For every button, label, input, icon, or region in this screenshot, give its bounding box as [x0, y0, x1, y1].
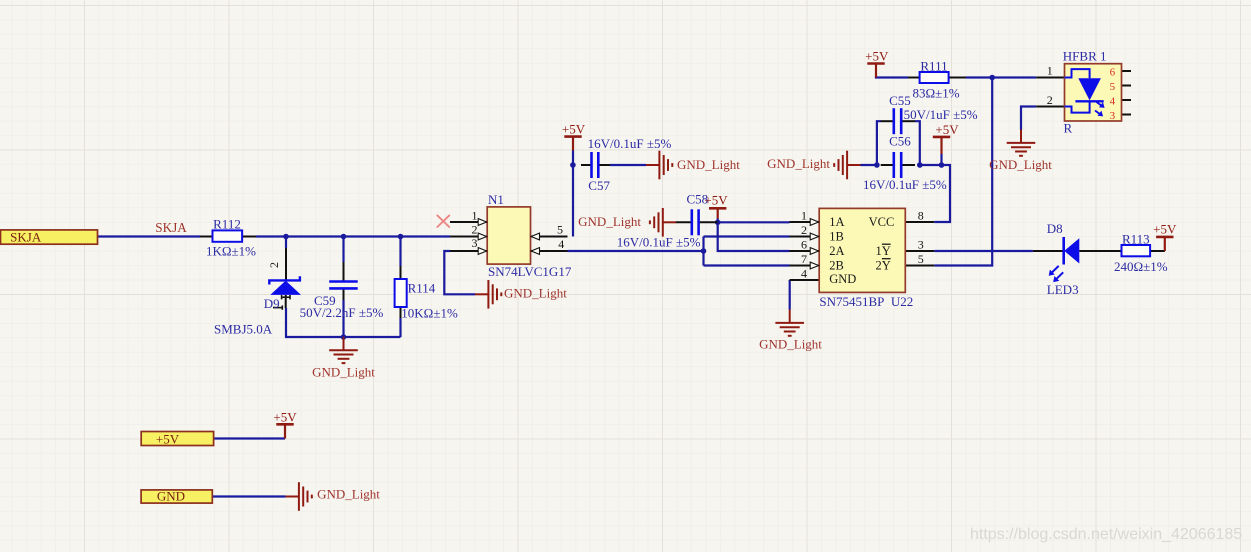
wire C56 to U22 pin8 VCC	[920, 165, 950, 222]
junction F	[715, 220, 721, 226]
ground GND_Light at GND port	[286, 482, 312, 511]
no-ERC marker at N1 pin1	[437, 215, 450, 228]
HFBR internal LED triangle	[1078, 78, 1101, 100]
overbar 1Y	[882, 243, 891, 245]
pin D9.1	[285, 295, 287, 308]
svg-text:GND_Light: GND_Light	[317, 487, 380, 502]
svg-text:1: 1	[1047, 64, 1053, 78]
pin N1.2	[450, 236, 487, 238]
junction G	[701, 248, 707, 254]
wire R111 to HFBR pin1	[966, 76, 1036, 78]
wire to R114	[399, 237, 401, 267]
svg-text:2: 2	[801, 223, 807, 237]
svg-text:R113: R113	[1122, 231, 1150, 246]
wire R114 to rail	[399, 318, 401, 337]
svg-text:6: 6	[801, 237, 807, 251]
resistor R114	[395, 279, 407, 307]
capacitor C55	[894, 108, 901, 134]
svg-text:GND_Light: GND_Light	[767, 156, 830, 171]
svg-text:4: 4	[1110, 95, 1116, 107]
power +5V at R111	[867, 64, 884, 78]
port SKJA	[1, 230, 98, 244]
svg-text:+5V: +5V	[935, 122, 959, 137]
wire ground to C56	[861, 164, 877, 166]
capacitor C58	[692, 209, 699, 235]
svg-text:HFBR 1: HFBR 1	[1063, 49, 1107, 64]
pin U22.1	[790, 221, 820, 223]
wire C55 right rail	[915, 121, 920, 165]
pin arrow U22.7	[810, 262, 818, 269]
pin C57.2	[598, 164, 610, 166]
pin HFBR.3	[1122, 114, 1132, 116]
svg-text:1Y: 1Y	[876, 244, 891, 258]
svg-text:6: 6	[1110, 66, 1116, 78]
svg-text:1B: 1B	[829, 229, 844, 243]
junction A	[283, 234, 289, 240]
ground GND_Light at N1 pin3	[475, 280, 501, 309]
svg-text:+5V: +5V	[704, 193, 728, 208]
svg-text:4: 4	[558, 237, 564, 251]
resistor R112	[213, 230, 243, 241]
power +5V at +5V port	[276, 424, 293, 438]
pin arrow N1.2	[478, 233, 486, 240]
svg-text:2: 2	[472, 222, 478, 236]
wire +5V to N1 pin5, C57 tap	[572, 151, 574, 237]
svg-text:2: 2	[267, 262, 281, 268]
op-amp U22 SN75451BP body	[819, 208, 905, 292]
junction H	[874, 162, 880, 168]
svg-text:GND_Light: GND_Light	[504, 286, 567, 301]
wire node vertical	[702, 237, 704, 266]
ground GND_Light at C55/C56 (mirrored)	[834, 151, 860, 180]
pin C58.1	[676, 221, 692, 223]
pin C56.1	[881, 164, 894, 166]
wire HFBR pin2 to ground	[1021, 107, 1036, 131]
svg-text:VCC: VCC	[869, 215, 895, 229]
LED D8 emission arrows	[1049, 266, 1064, 282]
pin U22.5	[905, 265, 934, 267]
wire left rail to C55	[877, 121, 881, 165]
svg-text:2B: 2B	[829, 258, 844, 272]
pin C55.1	[881, 120, 894, 122]
wire +5V to R111	[876, 76, 908, 78]
svg-text:GND: GND	[829, 272, 856, 286]
svg-text:R114: R114	[408, 281, 436, 296]
overbar 2Y	[882, 258, 891, 260]
HFBR emission arrows	[1095, 102, 1105, 116]
wire U22 pin4 to ground	[789, 280, 791, 310]
svg-text:3: 3	[918, 237, 924, 251]
pin U22.2	[790, 236, 820, 238]
svg-text:C57: C57	[588, 178, 610, 193]
pin U22.8	[905, 221, 934, 223]
svg-text:SKJA: SKJA	[10, 230, 42, 245]
pin D8.2	[1033, 250, 1064, 252]
junction I	[917, 162, 923, 168]
HFBR internal LED wiring	[1065, 69, 1104, 113]
pin C59.1	[343, 262, 345, 281]
power +5V at C55/C56	[933, 137, 950, 154]
wire to U22 pin7	[704, 264, 790, 266]
svg-text:GND_Light: GND_Light	[578, 214, 641, 229]
module HFBR 1 body	[1065, 64, 1122, 121]
wire node to U22 pin5 2Y	[934, 78, 992, 266]
wire D9 to bottom rail	[286, 308, 401, 337]
pin HFBR.1	[1036, 77, 1064, 79]
svg-text:16V/0.1uF ±5%: 16V/0.1uF ±5%	[863, 177, 947, 192]
junction E	[570, 162, 576, 168]
wire U22 pin3 1Y to D8	[934, 250, 1033, 252]
wire +5V stem tail C58	[717, 219, 719, 223]
svg-text:GND_Light: GND_Light	[989, 157, 1052, 172]
pin HFBR.4	[1122, 99, 1132, 101]
junction J	[939, 162, 945, 168]
LED D8	[1064, 237, 1080, 265]
svg-text:D9: D9	[264, 296, 280, 311]
svg-text:LED3: LED3	[1047, 282, 1079, 297]
svg-text:2A: 2A	[829, 244, 844, 258]
svg-text:R: R	[1064, 121, 1073, 136]
svg-text:+5V: +5V	[1153, 222, 1177, 237]
svg-text:50V/2.2nF ±5%: 50V/2.2nF ±5%	[300, 305, 384, 320]
svg-text:C55: C55	[889, 93, 911, 108]
pin U22.6	[790, 250, 820, 252]
wire +5V port to supply	[214, 437, 285, 439]
svg-text:240Ω±1%: 240Ω±1%	[1114, 259, 1168, 274]
pin R111.2	[949, 77, 966, 79]
resistor R111	[920, 72, 949, 83]
svg-text:https://blog.csdn.net/weixin_4: https://blog.csdn.net/weixin_42066185	[970, 526, 1242, 543]
pin arrow N1.5	[531, 233, 539, 240]
pin D9.2	[285, 248, 287, 280]
svg-text:+5V: +5V	[562, 122, 586, 137]
svg-text:2: 2	[1047, 93, 1053, 107]
wire +5V stem tail	[940, 154, 942, 165]
wire GND port to ground	[212, 495, 285, 497]
wire to U22 pin2	[704, 235, 790, 237]
svg-text:SKJA: SKJA	[155, 220, 187, 235]
svg-text:4: 4	[801, 266, 807, 280]
svg-text:83Ω±1%: 83Ω±1%	[912, 86, 959, 101]
pin HFBR.2	[1036, 106, 1064, 108]
pin N1.3	[450, 250, 487, 252]
wire to U22 pin1	[718, 221, 790, 223]
svg-text:GND: GND	[157, 489, 185, 504]
pin U22.3	[905, 250, 934, 252]
pin C56.2	[901, 164, 915, 166]
port GND	[141, 490, 212, 503]
ground GND_Light at C57	[646, 151, 672, 180]
svg-text:5: 5	[918, 252, 924, 266]
power +5V at R113	[1156, 237, 1173, 251]
svg-text:16V/0.1uF ±5%: 16V/0.1uF ±5%	[588, 136, 672, 151]
power +5V at C57	[564, 137, 581, 151]
pin R112.1	[200, 236, 213, 238]
svg-text:16V/0.1uF ±5%: 16V/0.1uF ±5%	[617, 234, 701, 249]
pin arrow U22.2	[810, 233, 818, 240]
pin C57.1	[581, 164, 592, 166]
wire C57 to ground	[610, 164, 646, 166]
pin D8.1 / R113.1	[1079, 250, 1121, 252]
junction C	[398, 234, 404, 240]
wire R112 to N1 pin2	[256, 235, 450, 237]
svg-text:GND_Light: GND_Light	[677, 157, 740, 172]
ground GND_Light at C58 (mirrored)	[650, 208, 676, 237]
svg-text:1KΩ±1%: 1KΩ±1%	[206, 244, 256, 259]
pin arrow U22.6	[810, 248, 818, 255]
pin number 1 (rotated) on D9	[282, 295, 290, 299]
capacitor C57	[592, 152, 599, 178]
junction K	[989, 75, 995, 81]
svg-text:SN75451BP U22: SN75451BP U22	[819, 294, 913, 309]
pin R114.2	[400, 307, 402, 318]
ground GND_Light at U22 pin4	[775, 310, 804, 336]
svg-text:8: 8	[918, 208, 924, 222]
svg-text:5: 5	[1110, 81, 1116, 93]
svg-text:3: 3	[472, 236, 478, 250]
svg-text:5: 5	[557, 223, 563, 237]
pin arrow N1.3	[478, 248, 486, 255]
pin U22.7	[790, 265, 820, 267]
svg-text:R112: R112	[213, 216, 241, 231]
svg-text:SMBJ5.0A: SMBJ5.0A	[214, 321, 273, 336]
svg-text:1A: 1A	[829, 215, 844, 229]
wire to U22 pin6	[718, 222, 790, 251]
svg-text:SN74LVC1G17: SN74LVC1G17	[488, 264, 572, 279]
pin designator tick on D9	[273, 305, 282, 309]
junction D	[341, 334, 347, 340]
wire N1 pin4 output	[568, 250, 704, 252]
junction B	[341, 234, 347, 240]
svg-text:2Y: 2Y	[876, 258, 891, 272]
pin C59.2	[343, 289, 345, 300]
svg-text:+5V: +5V	[273, 409, 297, 424]
capacitor C56	[894, 152, 901, 178]
pin R113.2	[1150, 250, 1165, 252]
pin R112.2	[242, 236, 256, 238]
pin arrow N1.1	[478, 219, 486, 226]
svg-text:10KΩ±1%: 10KΩ±1%	[401, 305, 458, 320]
svg-text:GND_Light: GND_Light	[312, 365, 375, 380]
svg-text:50V/1uF ±5%: 50V/1uF ±5%	[904, 107, 978, 122]
pin arrow U22.1	[810, 219, 818, 226]
wire to C59	[342, 237, 344, 263]
pin C55.2	[901, 120, 915, 122]
pin N1.4	[531, 250, 568, 252]
capacitor C59	[329, 282, 358, 289]
svg-text:+5V: +5V	[865, 49, 889, 64]
pin N1.5	[531, 236, 568, 238]
svg-text:R111: R111	[920, 59, 947, 74]
power +5V at C58	[709, 208, 726, 218]
pin R114.1	[400, 266, 402, 279]
svg-text:1: 1	[801, 208, 807, 222]
svg-text:N1: N1	[488, 192, 504, 207]
wire C59 to rail	[342, 300, 344, 337]
diode D9 TVS	[269, 276, 301, 295]
pin U22.4	[790, 279, 820, 281]
port +5V	[141, 432, 213, 446]
svg-text:C56: C56	[889, 133, 911, 148]
svg-text:7: 7	[801, 252, 807, 266]
svg-text:3: 3	[1110, 110, 1116, 122]
svg-text:+5V: +5V	[156, 431, 180, 446]
resistor R113	[1122, 245, 1151, 256]
ground GND_Light at C59	[329, 337, 358, 363]
pin HFBR.6	[1122, 70, 1132, 72]
wire to D9	[285, 237, 287, 249]
svg-text:1: 1	[472, 208, 478, 222]
pin C58.2	[699, 221, 718, 223]
svg-text:GND_Light: GND_Light	[759, 337, 822, 352]
wire SKJA port to R112	[98, 235, 201, 237]
pin R111.1	[908, 77, 920, 79]
svg-text:D8: D8	[1047, 221, 1063, 236]
ground GND_Light at HFBR pin2	[1007, 130, 1036, 156]
pin arrow N1.4	[531, 248, 539, 255]
pin HFBR.5	[1122, 85, 1132, 87]
wire N1 pin3 to ground	[444, 251, 475, 294]
pin N1.1	[450, 221, 487, 223]
buffer N1 SN74LVC1G17 body	[487, 207, 530, 264]
